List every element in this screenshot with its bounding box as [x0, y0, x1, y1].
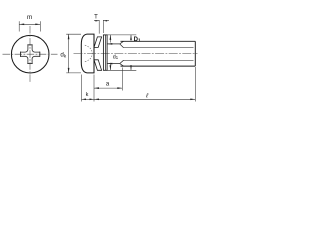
svg-text:ℓ: ℓ: [145, 92, 149, 99]
svg-text:m: m: [27, 14, 32, 21]
dimension T: left-pointing arrowhead: [103, 20, 107, 22]
dimension d1 bottom arrow segment: [109, 63, 111, 71]
dimension D1 top arrow segment: [130, 35, 132, 41]
dimension dk: top arrowhead: [68, 34, 70, 39]
thread start leader bottom: arrowhead: [108, 63, 113, 65]
D1 top arrowhead: [130, 35, 132, 40]
thread shank: crest top line: [121, 40, 196, 42]
front view: vertical centerline: [29, 26, 31, 83]
front view: head circle: [11, 35, 49, 73]
shank right end: [194, 41, 196, 66]
svg-text:k: k: [86, 92, 89, 98]
dimension k: extension line left: [81, 75, 83, 102]
thread root bottom line: [124, 59, 194, 61]
svg-text:D1: D1: [134, 37, 141, 43]
svg-text:dk: dk: [60, 52, 66, 59]
dimension m: extension lines: [19, 21, 40, 31]
dimension m: dimension line: [19, 23, 40, 25]
dimension T: right-pointing arrowhead: [95, 20, 99, 22]
dimension l: left arrowhead: [94, 98, 99, 100]
thread start bottom fork diagonals: [120, 60, 124, 66]
dimension a: left arrowhead: [94, 87, 99, 89]
side view: pan head outline: [81, 34, 94, 73]
d1 top arrowhead: [110, 35, 112, 40]
thread start leader top: shaft: [108, 43, 120, 45]
dimension l: dimension line: [94, 98, 195, 100]
dimension dk: dimension line: [68, 34, 70, 73]
flat washer middle face line: [104, 35, 106, 70]
dimension k: left arrowhead: [82, 98, 87, 100]
dimension dk: extension lines: [66, 34, 81, 73]
dimension k: right arrowhead: [90, 98, 95, 100]
thread shank: crest bottom line: [121, 65, 196, 67]
dimension l: right arrowhead: [190, 98, 195, 100]
axis centerline of screw: [74, 53, 198, 55]
thread start leader bottom: shaft: [108, 63, 120, 65]
D1 bottom arrowhead: [130, 65, 132, 70]
dimension a: right arrowhead: [117, 87, 122, 89]
dimension a: dimension line: [94, 87, 122, 89]
thread start top fork diagonals: [120, 41, 124, 47]
dimension a: extension line left (head face): [93, 75, 95, 102]
phillips recess arm end flares: [20, 45, 39, 64]
dimension dk: bottom arrowhead: [68, 68, 70, 73]
spring washer lower section: [94, 60, 102, 71]
front view: horizontal centerline: [3, 53, 58, 55]
thread root top line: [124, 47, 194, 49]
D1 extension line top: [107, 34, 136, 36]
svg-text:T: T: [94, 14, 98, 20]
flat washer: [103, 35, 107, 70]
dimension m: right arrowhead: [35, 23, 40, 25]
phillips recess cross with corner fillets: [20, 45, 39, 64]
dimension k: dimension line: [82, 98, 95, 100]
dimension l: extension line right: [194, 67, 196, 102]
dimension a: extension line right: [121, 68, 123, 91]
dimension m: left arrowhead: [19, 23, 24, 25]
hidden recess arc in head (dashed): [85, 45, 92, 62]
dimension d1 top arrow segment: [109, 35, 111, 43]
svg-text:a: a: [106, 81, 110, 87]
spring washer upper section: [94, 37, 102, 48]
thread start leader top: arrowhead: [108, 43, 113, 45]
svg-text:d1: d1: [113, 54, 119, 60]
D1 extension line bottom: [107, 69, 136, 71]
d1 bottom arrowhead: [110, 65, 112, 70]
dimension T: dimension line with outside arrows: [94, 20, 109, 22]
dimension T: extension lines: [99, 20, 103, 34]
dimension D1 bottom arrow segment: [130, 66, 132, 70]
